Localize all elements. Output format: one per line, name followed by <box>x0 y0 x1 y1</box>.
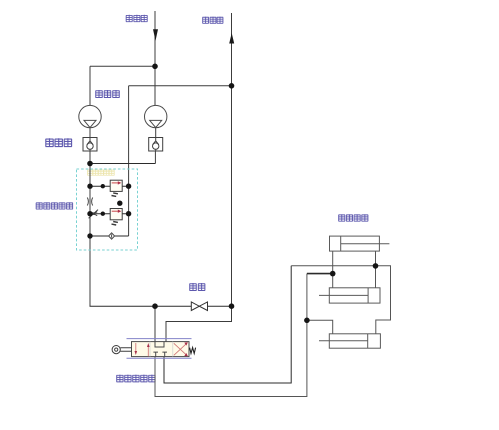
pilot check (diamond) on block bottom line <box>109 233 115 239</box>
wire ball valve line y306.2 <box>90 305 232 307</box>
ball valve B1 <box>191 302 207 311</box>
faint yellow label inside relief block <box>87 170 114 176</box>
wire suction line vertical x155 <box>154 11 156 66</box>
valve centre blocked ports (T symbols) <box>153 352 167 357</box>
wire valve T port jog from return <box>166 306 232 341</box>
label 吸油箱 (suction tank) <box>126 15 148 22</box>
node relief line 2 right <box>126 211 131 216</box>
wire pump output manifold y163.5 <box>90 163 155 165</box>
valve blue rail bottom <box>127 357 192 359</box>
wire left pump to check valve <box>89 128 91 138</box>
orifice on main line (fixed restrictor) <box>87 198 92 206</box>
node relief line 1 right <box>126 184 131 189</box>
wire relief block bottom line y236 <box>90 235 129 237</box>
steering cylinder C1 (top) <box>330 236 390 251</box>
node block bottom left <box>87 233 92 238</box>
check valve V2 (right) <box>149 138 163 152</box>
node pump outputs join <box>87 161 93 167</box>
wire return line vertical x231.5 <box>231 13 233 306</box>
wire valve A port to bottom outer loop <box>155 320 307 396</box>
wire A-side riser x306.9 <box>306 274 308 321</box>
valve left cell arrow 2 (red, up) <box>147 346 149 356</box>
steering cylinder C2 (middle) <box>319 288 380 303</box>
arrow to suction tank (down) <box>153 29 158 41</box>
flow-stabilizing relief valve block (dashed enclosure) <box>77 169 138 250</box>
node valve P tee <box>152 303 158 309</box>
variable throttle on relief line <box>89 210 98 219</box>
label 回油箱 (return tank) <box>202 17 223 24</box>
label 单向阀 (check valve) <box>46 138 72 147</box>
label 转向油缸 (steering cylinder) <box>338 214 368 221</box>
valve body <box>132 342 190 357</box>
wire left check valve to manifold <box>89 151 91 164</box>
wire bottom cylinder left feed <box>307 320 333 334</box>
wire top cylinder left port drop x332.7 <box>332 251 334 288</box>
label 稳流溢流阀 (flow-stabilizing relief valve) <box>36 202 73 209</box>
wire right pump suction drop x155 <box>154 66 156 106</box>
node relief line 2 mid <box>101 212 105 216</box>
node return tee at ball valve line <box>229 303 235 309</box>
wire relief return manifold y85.8 <box>129 85 232 87</box>
wire relief valve 2 line y213.7 <box>90 213 129 215</box>
wire top cylinder right port drop x375.5 <box>375 251 377 288</box>
wire main pressure line x90 through relief block <box>89 164 91 307</box>
steering cylinder C3 (bottom) <box>319 334 380 348</box>
wire valve P port drop x155 <box>154 306 156 341</box>
valve cell dividers <box>150 342 173 357</box>
valve blue rail top <box>127 338 192 340</box>
wire relief valve 1 line y186.2 <box>90 185 129 187</box>
valve return spring W <box>190 348 196 354</box>
steering distribution valve U1 <box>112 339 196 359</box>
wire left pump suction drop x90 <box>89 66 91 106</box>
label 转油泵 (steering pump) <box>95 90 119 98</box>
valve centre U port link <box>155 342 164 347</box>
node relief line 1 mid <box>101 184 105 188</box>
pump P1 (left steering pump) <box>79 105 101 127</box>
wire A-side top link y273.6 <box>307 273 333 275</box>
wire valve B port to bottom inner loop <box>164 266 291 383</box>
pump P2 (right steering pump) <box>145 105 167 127</box>
node top cylinder right branch <box>373 263 379 269</box>
label 球阀 (ball valve) <box>189 283 205 291</box>
node A-side riser tee <box>304 318 310 324</box>
valve hand lever operator <box>112 346 120 354</box>
node relief line 2 left <box>87 211 92 216</box>
wire right check valve to manifold <box>154 151 156 164</box>
node suction manifold <box>152 64 158 70</box>
check valve V1 (left) <box>83 138 97 152</box>
label 转向分配阀 (steering distribution valve) <box>116 375 155 383</box>
wire relief return vertical x128.6 <box>128 86 130 236</box>
node relief line 1 left <box>87 184 92 189</box>
node pilot point <box>117 201 122 206</box>
relief valve R1 (upper pilot valve) <box>110 180 122 196</box>
node top cylinder left branch <box>330 271 336 277</box>
valve right cell crossed arrows (red X) <box>174 343 187 355</box>
node return manifold <box>229 83 235 89</box>
relief valve R2 (lower pilot valve) <box>110 209 122 226</box>
wire suction manifold y66.3 <box>90 65 155 67</box>
valve left cell arrow 1 (red, down) <box>135 343 137 352</box>
wire cylinder right-side feed y265.7 <box>291 266 390 334</box>
wire right pump to check valve <box>155 128 157 138</box>
spring of R1 <box>112 193 118 197</box>
arrow to return tank (up) <box>229 33 234 44</box>
spring of R2 <box>112 222 118 226</box>
